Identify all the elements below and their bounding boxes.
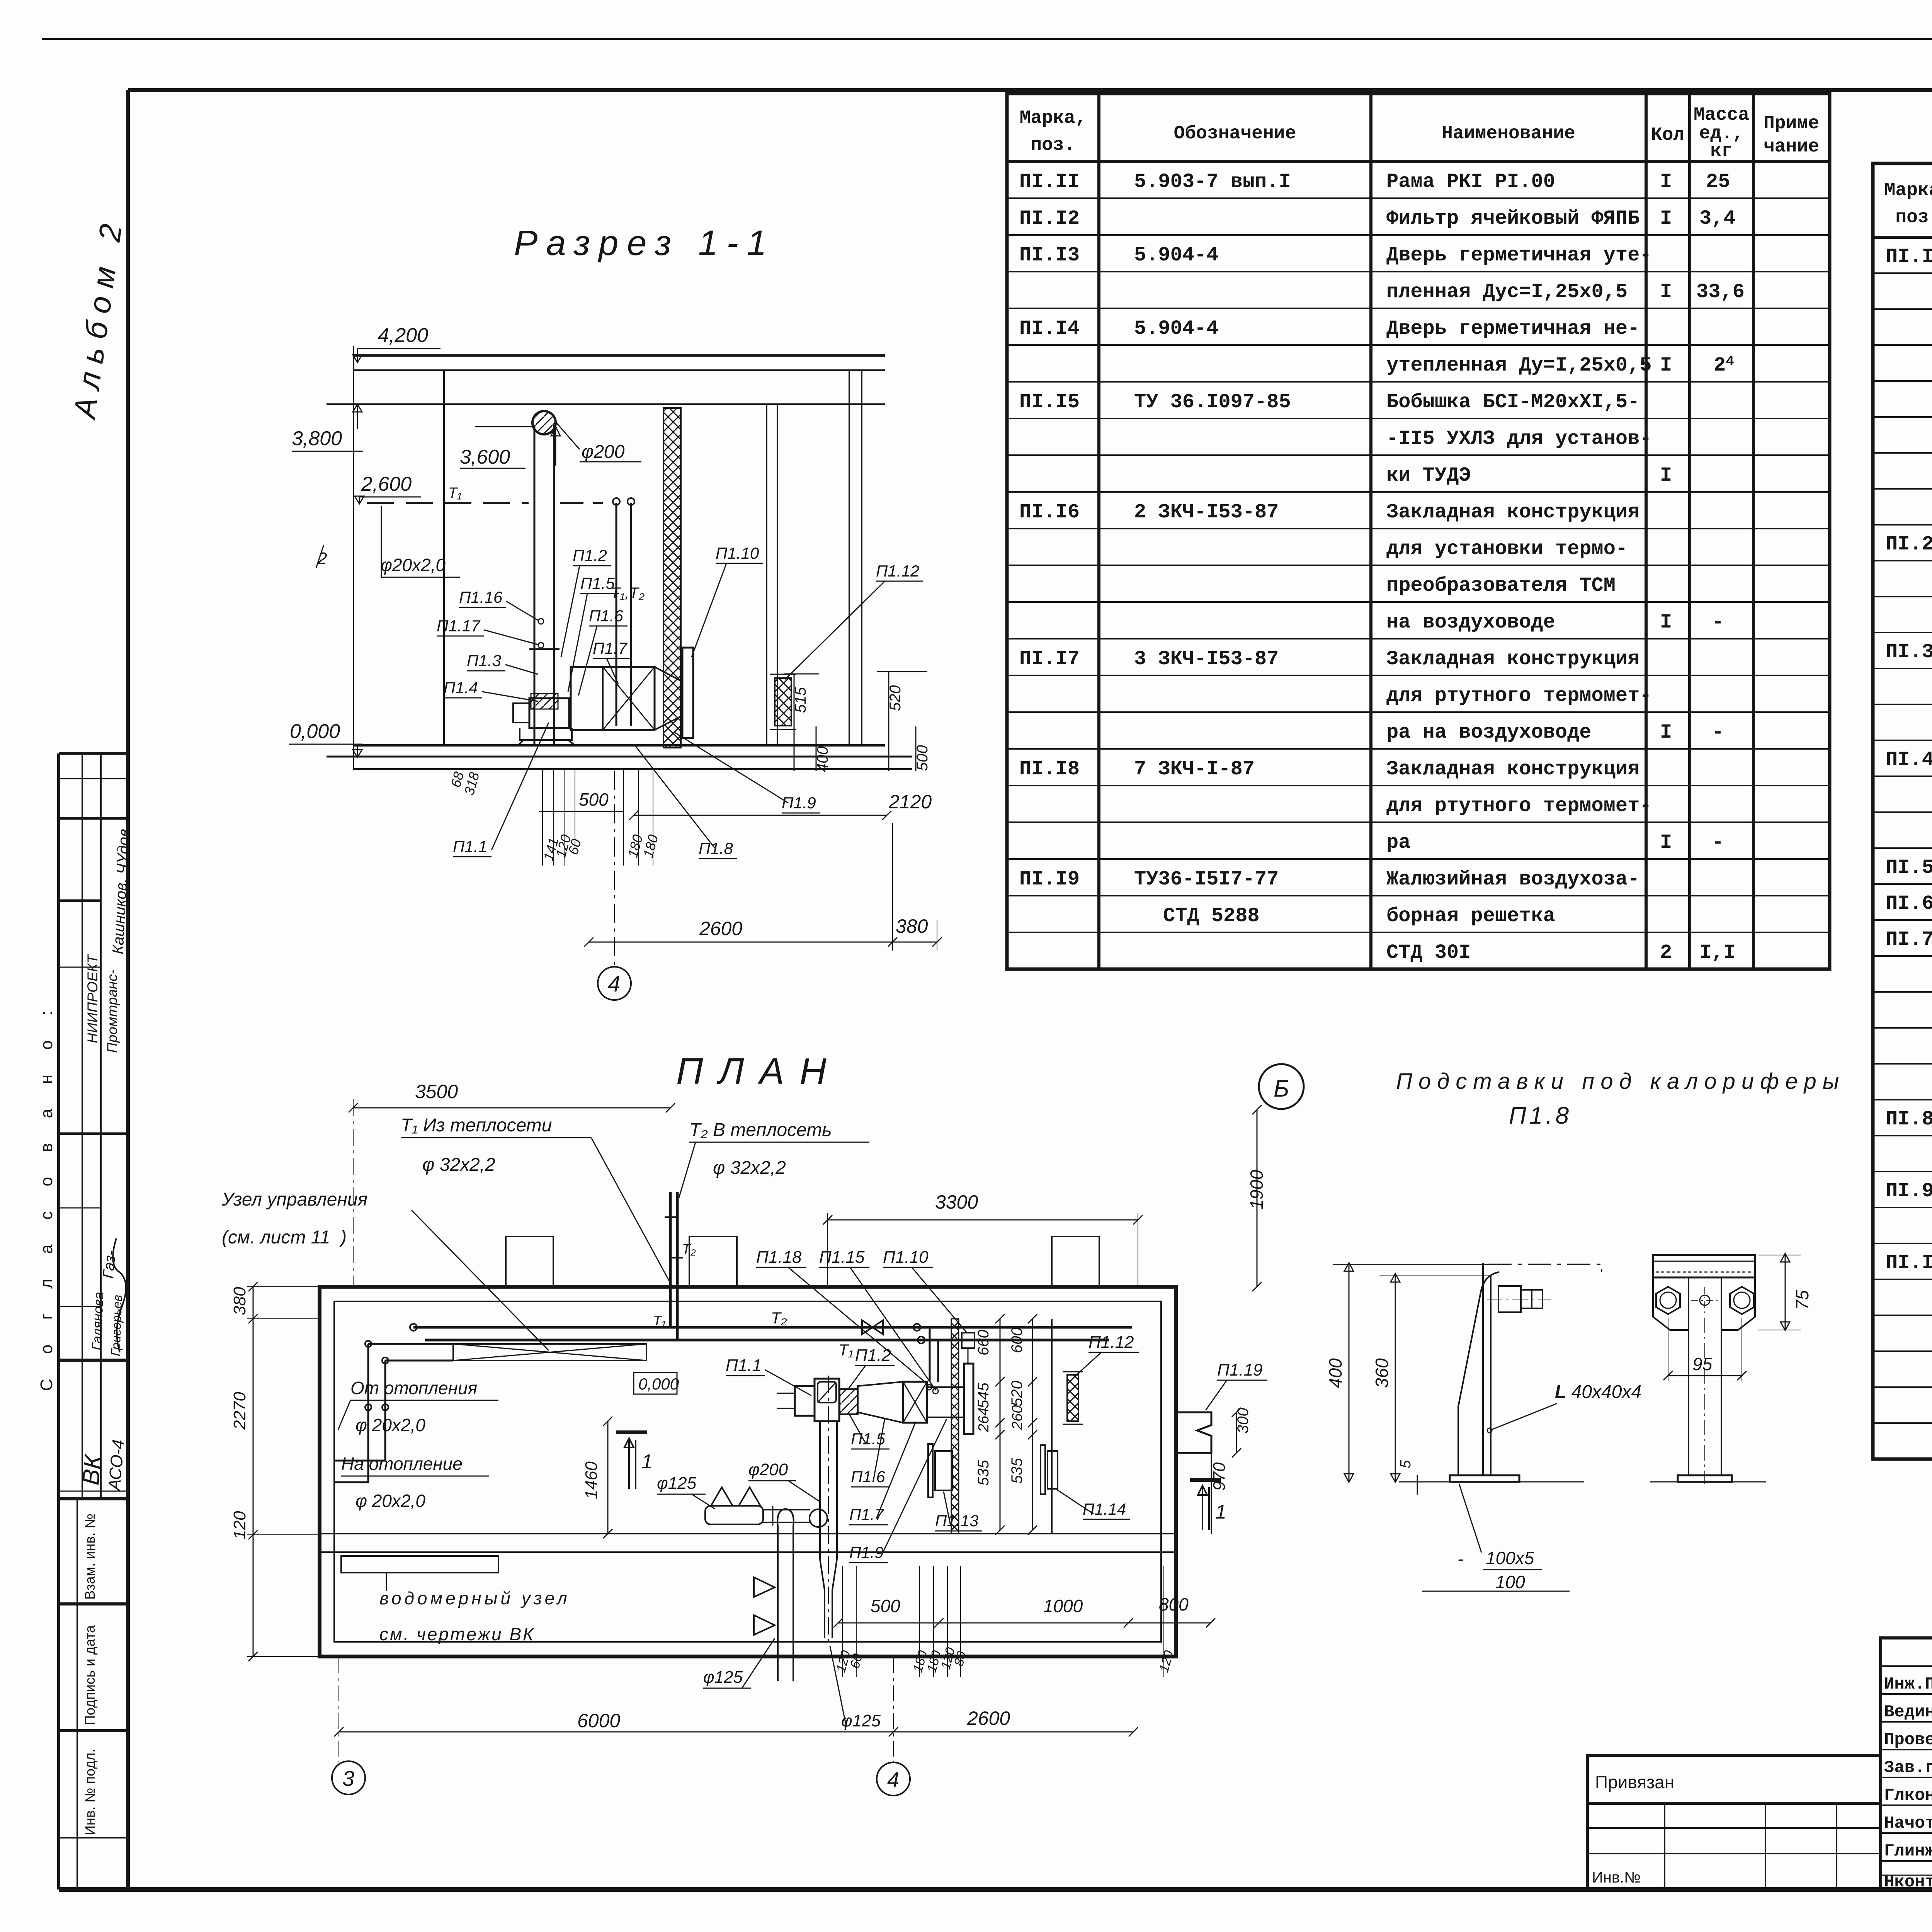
dim 360 left [1395, 1275, 1396, 1482]
svg-text:Инв. № подл.: Инв. № подл. [82, 1749, 98, 1835]
svg-text:1: 1 [641, 1451, 653, 1473]
callout П1.6 [851, 1418, 889, 1487]
svg-text:φ20х2,0: φ20х2,0 [381, 555, 446, 575]
center hole [1700, 1295, 1710, 1305]
svg-text:см. чертежи ВК: см. чертежи ВК [379, 1624, 535, 1644]
svg-text:800: 800 [1159, 1594, 1189, 1614]
svg-text:ТУ 36.I097-85: ТУ 36.I097-85 [1134, 391, 1291, 413]
svg-text:4: 4 [608, 971, 620, 997]
fan unit box [529, 698, 569, 728]
svg-text:500: 500 [579, 789, 609, 810]
svg-text:Закладная конструкция: Закладная конструкция [1386, 758, 1639, 781]
svg-text:П1.14: П1.14 [1083, 1500, 1126, 1518]
svg-text:2 ЗКЧ-I53-87: 2 ЗКЧ-I53-87 [1134, 501, 1279, 524]
control unit register [453, 1344, 646, 1361]
svg-text:ПI.I5: ПI.I5 [1019, 391, 1080, 413]
svg-text:поз.: поз. [1031, 135, 1075, 156]
svg-text:Марка,: Марка, [1884, 180, 1932, 201]
callout П1.16 [459, 588, 544, 624]
svg-text:100: 100 [1495, 1572, 1525, 1592]
callout П1.9 [849, 1419, 947, 1563]
top pilaster 2 [689, 1236, 737, 1287]
axis line to circle 4 [614, 771, 615, 966]
svg-text:чание: чание [1764, 136, 1819, 157]
svg-text:Обозначение: Обозначение [1174, 123, 1296, 144]
right view post [1688, 1330, 1689, 1475]
svg-text:Кол: Кол [1651, 125, 1684, 146]
svg-text:ПI.I6: ПI.I6 [1019, 501, 1080, 524]
svg-text:-: - [1712, 611, 1724, 634]
svg-text:2: 2 [1660, 941, 1672, 964]
svg-text:120: 120 [230, 1511, 249, 1539]
confuser П1.6 plan [858, 1382, 903, 1423]
svg-text:Бобышка БСI-М20хХI,5-: Бобышка БСI-М20хХI,5- [1386, 391, 1639, 413]
dim column 660 545 264 535 [975, 1327, 1026, 1486]
right small dims 515 520 400 500 [792, 685, 931, 772]
svg-text:Инв.№: Инв.№ [1592, 1869, 1641, 1886]
callout П1.1 [453, 723, 549, 857]
svg-text:П1.10: П1.10 [883, 1248, 929, 1267]
svg-text:5.904-4: 5.904-4 [1134, 244, 1218, 267]
axis circle 4 plan [877, 1762, 910, 1796]
heater duct box [571, 667, 655, 730]
svg-text:φ200: φ200 [748, 1460, 788, 1479]
svg-text:1: 1 [1215, 1501, 1226, 1523]
ceiling slab lines [354, 354, 885, 357]
svg-text:П1.8: П1.8 [699, 839, 733, 857]
svg-text:Провер.: Провер. [1884, 1730, 1932, 1750]
svg-text:535: 535 [1009, 1458, 1026, 1484]
svg-text:ПI.8: ПI.8 [1886, 1108, 1932, 1131]
callout П1.5 [849, 1414, 889, 1449]
svg-text:3 ЗКЧ-I53-87: 3 ЗКЧ-I53-87 [1134, 648, 1279, 670]
svg-text:Глконс.: Глконс. [1884, 1786, 1932, 1805]
svg-text:Т₂ В теплосеть: Т₂ В теплосеть [689, 1120, 832, 1140]
vertical duct phi200 [819, 1421, 821, 1559]
grille П1.12 [775, 678, 791, 726]
svg-text:П1.6: П1.6 [851, 1468, 885, 1486]
air triangles above duct [711, 1487, 760, 1506]
svg-text:360: 360 [1372, 1358, 1392, 1388]
svg-text:-II5 УХЛЗ для установ-: -II5 УХЛЗ для установ- [1386, 427, 1652, 450]
svg-text:Газ-: Газ- [100, 1250, 119, 1279]
svg-text:I: I [1660, 281, 1672, 303]
pipe drops to heater [929, 1327, 931, 1382]
left spec table row rules [1007, 197, 1830, 199]
drawing frame top border [128, 88, 1932, 92]
svg-text:ВК: ВК [77, 1452, 107, 1486]
side stamp strip left edge [57, 753, 60, 1889]
pipe top elbow circle [532, 411, 556, 434]
svg-text:П1.6: П1.6 [589, 607, 623, 625]
flexible insert П1.2 / flange П1.5 piece [840, 1389, 858, 1414]
T2 pipe line [413, 1326, 1132, 1329]
svg-text:25: 25 [1706, 170, 1730, 193]
svg-text:1000: 1000 [1043, 1596, 1083, 1616]
svg-text:600: 600 [1009, 1327, 1026, 1353]
svg-text:φ125: φ125 [841, 1711, 881, 1730]
signature table texts [1884, 1675, 1932, 1892]
top pilaster 3 [1052, 1236, 1099, 1287]
svg-text:утепленная Ду=I,25х0,5: утепленная Ду=I,25х0,5 [1386, 354, 1652, 377]
flange marks on pipe [529, 648, 560, 650]
svg-text:535: 535 [975, 1460, 992, 1486]
svg-text:φ 20х2,0: φ 20х2,0 [355, 1491, 425, 1511]
air valve П1.10 plan [964, 1364, 973, 1434]
svg-text:-: - [1458, 1549, 1463, 1569]
svg-text:НИИПРОЕКТ: НИИПРОЕКТ [85, 954, 100, 1043]
svg-text:для ртутного термомет-: для ртутного термомет- [1386, 794, 1652, 817]
vertical duct pipe [534, 425, 536, 745]
svg-text:(см. лист 11 ): (см. лист 11 ) [222, 1227, 347, 1248]
svg-text:I: I [1660, 611, 1672, 634]
svg-text:380: 380 [896, 915, 928, 937]
svg-text:П1.16: П1.16 [459, 588, 503, 606]
left spec table body text [1019, 170, 1745, 964]
side stamp inner divider lower [77, 1499, 78, 1889]
callout П1.12 [785, 562, 923, 679]
callout П1.10 [692, 544, 763, 657]
svg-text:3,4: 3,4 [1699, 207, 1736, 230]
motor box plan [795, 1386, 815, 1416]
svg-text:φ 32х2,2: φ 32х2,2 [713, 1158, 786, 1178]
svg-text:φ125: φ125 [703, 1668, 743, 1687]
svg-text:на воздуховоде: на воздуховоде [1386, 611, 1555, 634]
callout П1.3 [467, 651, 538, 674]
svg-text:4: 4 [887, 1767, 899, 1792]
svg-text:Т₁: Т₁ [653, 1313, 666, 1328]
svg-text:0,000: 0,000 [638, 1375, 679, 1393]
heater cross section [603, 667, 655, 730]
callout П1.6 [578, 607, 628, 696]
svg-text:660: 660 [975, 1330, 992, 1355]
svg-text:поз.: поз. [1895, 207, 1932, 228]
svg-text:П1.5: П1.5 [580, 574, 615, 592]
svg-text:3500: 3500 [415, 1081, 458, 1102]
svg-text:3,600: 3,600 [460, 446, 510, 468]
plan outer walls [320, 1287, 1176, 1656]
callout П1.13 [935, 1492, 982, 1531]
hex bolt right [1730, 1287, 1754, 1314]
callout П1.17 [437, 617, 544, 648]
svg-text:П1.17: П1.17 [437, 617, 481, 635]
left view angle post [1482, 1263, 1484, 1475]
svg-text:545: 545 [975, 1383, 992, 1408]
svg-text:2,600: 2,600 [361, 473, 412, 495]
svg-text:7 ЗКЧ-I-87: 7 ЗКЧ-I-87 [1134, 758, 1255, 781]
svg-text:970: 970 [1210, 1462, 1229, 1491]
svg-text:ПI.II: ПI.II [1019, 170, 1080, 193]
svg-text:П1.12: П1.12 [876, 562, 919, 580]
svg-text:Марка,: Марка, [1020, 108, 1087, 129]
svg-text:ПI.4: ПI.4 [1886, 748, 1932, 771]
svg-text:400: 400 [1325, 1358, 1345, 1388]
left view slanted front edge [1458, 1272, 1499, 1475]
floor slab lines [354, 744, 885, 747]
dim 400 left [1349, 1264, 1350, 1482]
callout П1.14 [1057, 1490, 1130, 1519]
svg-text:Т₁ Из теплосети: Т₁ Из теплосети [401, 1115, 552, 1136]
svg-text:водомерный узел: водомерный узел [379, 1588, 570, 1608]
svg-text:260: 260 [1009, 1405, 1026, 1430]
svg-text:Привязан: Привязан [1595, 1772, 1674, 1792]
unit base frame [518, 728, 575, 745]
svg-text:На отопление: На отопление [341, 1454, 463, 1474]
svg-text:75: 75 [1792, 1290, 1812, 1310]
callout П1.7 [593, 639, 631, 684]
callout П1.2 plan [848, 1346, 895, 1389]
svg-text:ПI.3: ПI.3 [1886, 641, 1932, 663]
T1 T2 riser pipes [616, 503, 617, 726]
svg-text:3,800: 3,800 [292, 427, 342, 450]
lower vertical duct phi125 [777, 1526, 779, 1681]
svg-text:П1.7: П1.7 [593, 639, 628, 657]
callout П1.7 [849, 1423, 915, 1525]
svg-text:Взам. инв. №: Взам. инв. № [82, 1514, 98, 1600]
right spec table body text [1886, 245, 1932, 1454]
svg-text:ПI.I7: ПI.I7 [1019, 648, 1080, 670]
svg-text:515: 515 [792, 687, 809, 713]
svg-text:φ 32х2,2: φ 32х2,2 [422, 1155, 495, 1175]
svg-text:ПI.7: ПI.7 [1886, 928, 1932, 951]
svg-text:Зав.гр.: Зав.гр. [1884, 1758, 1932, 1777]
boxed 0,000 [634, 1372, 677, 1394]
T1 pipe dashed [367, 502, 529, 504]
dim 75 [1785, 1255, 1786, 1330]
svg-text:П1.18: П1.18 [756, 1248, 802, 1267]
side stamp horizontal dividers [59, 752, 128, 755]
svg-text:Т₁: Т₁ [838, 1341, 854, 1359]
svg-text:1460: 1460 [582, 1461, 601, 1499]
right view bracket with bolts [1653, 1277, 1689, 1330]
left spec table outer border [1007, 94, 1830, 969]
axis circle 3 [332, 1761, 365, 1794]
svg-text:П1.2: П1.2 [573, 546, 607, 565]
svg-text:Б: Б [1274, 1075, 1289, 1102]
svg-text:Галянова: Галянова [89, 1292, 106, 1350]
svg-text:ПЛАН: ПЛАН [676, 1051, 842, 1092]
svg-text:Вединж.: Вединж. [1884, 1702, 1932, 1722]
callout П1.2 [561, 546, 611, 657]
left lower grid [1587, 1803, 1881, 1889]
svg-text:ПI.I3: ПI.I3 [1019, 244, 1080, 267]
svg-text:Инж.Пк: Инж.Пк [1884, 1675, 1932, 1694]
svg-text:преобразователя ТСМ: преобразователя ТСМ [1386, 574, 1616, 597]
title block signature table borders [1881, 1638, 1932, 1889]
svg-text:Подставки под калориферы: Подставки под калориферы [1396, 1069, 1845, 1094]
left spec table header text [1020, 105, 1819, 162]
svg-text:ПI.I4: ПI.I4 [1019, 317, 1080, 340]
section cut mark right [1190, 1478, 1221, 1482]
air valve plate П1.10 [682, 648, 693, 738]
section cut mark left [616, 1430, 647, 1434]
svg-text:С о г л а с о в а н о :: С о г л а с о в а н о : [37, 1001, 56, 1391]
svg-text:I: I [1660, 207, 1672, 230]
confuser funnel [655, 667, 682, 682]
svg-text:I: I [1660, 170, 1672, 193]
svg-text:П1.7: П1.7 [849, 1505, 884, 1524]
svg-text:95: 95 [1692, 1354, 1713, 1374]
left attachment box Привязан [1587, 1755, 1881, 1803]
svg-text:2120: 2120 [888, 791, 932, 813]
svg-text:ПI.5: ПI.5 [1886, 856, 1932, 879]
svg-text:П1.3: П1.3 [467, 651, 501, 670]
svg-text:L 40х40х4: L 40х40х4 [1555, 1382, 1641, 1402]
svg-text:ки ТУДЭ: ки ТУДЭ [1386, 464, 1471, 487]
drawing frame left border [126, 90, 130, 1889]
svg-text:2270: 2270 [230, 1392, 249, 1430]
svg-text:Т₁: Т₁ [448, 485, 462, 501]
grille П1.12 plan [1067, 1375, 1078, 1421]
svg-text:П1.4: П1.4 [444, 679, 478, 697]
svg-text:33,6: 33,6 [1696, 281, 1745, 303]
svg-text:5.904-4: 5.904-4 [1134, 317, 1218, 340]
valve on T2 [862, 1320, 883, 1334]
callout П1.9 [674, 732, 820, 813]
svg-text:φ 20х2,0: φ 20х2,0 [355, 1415, 425, 1435]
svg-text:Т₁,Т₂: Т₁,Т₂ [611, 585, 645, 602]
fan П1.1 plan [815, 1379, 839, 1421]
svg-text:500: 500 [871, 1596, 900, 1616]
extension verticals bottom [542, 770, 543, 866]
svg-text:I: I [1660, 464, 1672, 487]
svg-text:П1.8: П1.8 [1509, 1102, 1572, 1129]
svg-text:5: 5 [1398, 1460, 1414, 1468]
hatched shaft wall [663, 408, 681, 748]
svg-text:Жалюзийная воздухоза-: Жалюзийная воздухоза- [1386, 868, 1639, 891]
svg-text:Дверь герметичная уте-: Дверь герметичная уте- [1386, 244, 1652, 267]
callout П1.4 [444, 679, 538, 701]
svg-text:Дверь герметичная не-: Дверь герметичная не- [1386, 317, 1639, 340]
duct elbow circle [810, 1509, 827, 1527]
small rotated numbers bottom [833, 1646, 1176, 1674]
svg-text:400: 400 [814, 746, 831, 772]
axis circle 4 [598, 967, 631, 1000]
air triangles lower duct [754, 1577, 775, 1635]
svg-text:пленная Дус=I,25х0,5: пленная Дус=I,25х0,5 [1386, 281, 1628, 303]
callout П1.5 [568, 574, 619, 692]
svg-text:борная решетка: борная решетка [1386, 905, 1555, 927]
hatched partition wall right [951, 1319, 959, 1534]
svg-text:2600: 2600 [967, 1708, 1010, 1729]
svg-text:Т₂: Т₂ [771, 1309, 787, 1327]
svg-text:Начотд.: Начотд. [1884, 1814, 1932, 1833]
svg-text:П1.13: П1.13 [935, 1512, 978, 1530]
ground line left view [1399, 1481, 1584, 1483]
heat supply risers from top [669, 1192, 672, 1327]
svg-text:380: 380 [230, 1287, 249, 1315]
svg-text:264: 264 [976, 1408, 992, 1432]
svg-text:Разрез 1-1: Разрез 1-1 [514, 223, 775, 263]
svg-text:Приме: Приме [1764, 113, 1819, 134]
callout П1.12 plan [1077, 1333, 1139, 1375]
svg-text:I: I [1660, 354, 1672, 377]
callouts П1.18 П1.15 П1.10 [756, 1248, 929, 1385]
svg-text:ТУ36-I5I7-77: ТУ36-I5I7-77 [1134, 868, 1279, 891]
svg-text:520: 520 [887, 685, 904, 711]
svg-text:φ125: φ125 [657, 1474, 697, 1493]
left wall line [443, 370, 445, 745]
right inner wall pair [766, 404, 767, 745]
svg-text:I,I: I,I [1699, 941, 1736, 964]
svg-text:П1.2: П1.2 [855, 1346, 891, 1365]
svg-text:ра на воздуховоде: ра на воздуховоде [1386, 721, 1592, 744]
svg-text:П1.1: П1.1 [726, 1356, 762, 1375]
svg-text:Т₂: Т₂ [682, 1241, 696, 1257]
svg-text:Нконтр.: Нконтр. [1884, 1872, 1932, 1892]
svg-text:0,000: 0,000 [290, 720, 340, 743]
svg-text:для ртутного термомет-: для ртутного термомет- [1386, 684, 1652, 707]
callout П1.8 [634, 744, 737, 859]
svg-text:П1.9: П1.9 [849, 1543, 884, 1561]
svg-text:Узел управления: Узел управления [221, 1189, 367, 1210]
svg-text:Наименование: Наименование [1442, 123, 1575, 144]
right spec table header text [1884, 176, 1932, 234]
right spec table header rule [1873, 236, 1932, 239]
right view top plate [1653, 1255, 1755, 1277]
svg-text:2600: 2600 [699, 918, 742, 939]
svg-text:3300: 3300 [935, 1191, 978, 1213]
svg-text:П1.15: П1.15 [819, 1248, 865, 1267]
left spec table column lines [1097, 94, 1100, 969]
sheet top edge line [42, 38, 1932, 40]
svg-text:I: I [1660, 721, 1672, 744]
side stamp inner divider mid [100, 753, 102, 1499]
svg-text:П1.12: П1.12 [1088, 1333, 1134, 1352]
right spec table outer border [1873, 163, 1932, 1459]
svg-text:для установки термо-: для установки термо- [1386, 537, 1628, 560]
svg-text:кг: кг [1710, 141, 1733, 162]
left heating risers [335, 1344, 368, 1482]
left view foot plate [1450, 1475, 1519, 1482]
svg-text:Рама РКI РI.00: Рама РКI РI.00 [1386, 170, 1555, 193]
svg-text:Глинж.: Глинж. [1884, 1842, 1932, 1861]
svg-text:ПI.9: ПI.9 [1886, 1180, 1932, 1202]
bolt assembly [1498, 1286, 1521, 1312]
svg-text:500: 500 [914, 745, 931, 771]
signature table row lines [1881, 1665, 1932, 1667]
svg-text:Масса: Масса [1694, 105, 1749, 126]
svg-text:П1.1: П1.1 [453, 837, 487, 855]
svg-text:5.903-7 вып.I: 5.903-7 вып.I [1134, 170, 1291, 193]
horizontal duct phi125 [705, 1506, 763, 1524]
svg-text:От отопления: От отопления [350, 1378, 477, 1398]
svg-text:100х5: 100х5 [1486, 1548, 1534, 1568]
svg-text:Промтранс-: Промтранс- [104, 969, 120, 1053]
side stamp inner divider upper [82, 753, 83, 1499]
svg-text:Фильтр ячейковый ФЯПБ: Фильтр ячейковый ФЯПБ [1386, 207, 1639, 230]
top pilaster 1 [506, 1236, 553, 1287]
svg-text:Подпись и дата: Подпись и дата [82, 1625, 98, 1725]
T1 pipe line [425, 1339, 1109, 1342]
svg-text:ПI.I0: ПI.I0 [1886, 1252, 1932, 1274]
svg-text:Григорьев: Григорьев [108, 1294, 125, 1356]
водомерный узел rectangle [341, 1556, 498, 1573]
svg-text:Закладная конструкция: Закладная конструкция [1386, 648, 1639, 670]
svg-text:φ200: φ200 [582, 442, 625, 462]
svg-text:ПI.I2: ПI.I2 [1019, 207, 1080, 230]
svg-text:ПI.I9: ПI.I9 [1019, 868, 1080, 891]
П1.13 box plan [928, 1444, 933, 1497]
svg-text:-: - [1712, 721, 1724, 744]
drawing frame bottom border [59, 1887, 1932, 1892]
heater П1.7 plan [903, 1382, 927, 1423]
callout П1.1 plan [726, 1356, 811, 1396]
right view foot [1678, 1475, 1732, 1482]
svg-text:6000: 6000 [577, 1710, 620, 1731]
svg-text:ПI.I8: ПI.I8 [1019, 758, 1080, 781]
svg-text:-: - [1712, 831, 1724, 854]
